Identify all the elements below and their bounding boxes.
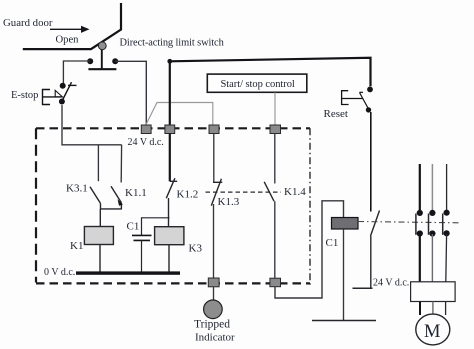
svg-text:K1.4: K1.4	[284, 186, 306, 198]
main contact 1	[416, 210, 423, 237]
junction dot	[167, 59, 172, 64]
svg-text:K1.1: K1.1	[125, 187, 147, 199]
limit switch actuator stem	[101, 50, 103, 69]
wire: PLC output 4 down	[274, 134, 276, 184]
aux contact C1	[371, 211, 380, 237]
wire: branch K3.1/K1.1 header	[97, 145, 99, 181]
wires overload to motor	[419, 302, 421, 316]
limit switch bridge bar	[88, 68, 116, 70]
limit switch roller	[98, 42, 106, 50]
PLC output terminal (lamp)	[208, 278, 219, 287]
0V dc rail	[76, 271, 180, 274]
wire K3 to 0V	[168, 245, 170, 272]
capacitor C1 link wire	[142, 218, 170, 235]
relay coil K1	[84, 227, 113, 245]
PLC input terminal 4	[270, 125, 281, 134]
wire to K1 coil	[99, 209, 101, 227]
phase line L2	[431, 164, 433, 212]
PLC input terminal 2	[165, 125, 175, 134]
E-stop moving contact	[62, 82, 77, 101]
svg-text:Reset: Reset	[324, 108, 348, 120]
overload relay box	[411, 282, 456, 302]
svg-text:Direct-acting limit switch: Direct-acting limit switch	[120, 37, 225, 48]
svg-text:24 V d.c.: 24 V d.c.	[373, 278, 409, 289]
E-stop contact dot top	[60, 83, 66, 89]
wire K1.2 to K3 coil	[168, 198, 170, 227]
wire: aux contact to 24V bar	[370, 236, 372, 288]
svg-text:K3.1: K3.1	[66, 183, 88, 195]
relay coil K3	[155, 227, 184, 245]
guard door arrow	[50, 26, 90, 33]
wire K1.1 drop	[120, 145, 122, 183]
svg-text:C1: C1	[326, 237, 339, 249]
capacitor C1	[132, 235, 152, 240]
wire to lamp	[213, 287, 215, 301]
svg-text:K1.3: K1.3	[218, 196, 240, 208]
wire K1.3 to output square	[213, 204, 215, 278]
motor M	[416, 314, 450, 345]
contact K1.3	[211, 179, 222, 206]
reset actuator bracket	[342, 91, 363, 105]
wire: limit switch right dot to PLC input 1	[115, 61, 146, 125]
capacitor to 0V wire	[141, 240, 143, 272]
phase line L1	[419, 164, 421, 212]
wire: E-stop down into relay branch	[62, 105, 122, 145]
phase wires to overload	[419, 234, 421, 282]
wire: reset to aux contact	[370, 112, 372, 212]
PLC output terminal (contactor)	[270, 278, 281, 287]
PLC input terminal 1	[141, 125, 151, 134]
24V dc terminal bar	[353, 287, 373, 289]
main contact 3	[443, 210, 450, 237]
wire: limit switch left dot to E-stop	[63, 61, 90, 83]
wire K1 to 0V	[99, 245, 101, 273]
mechanical linkage dash-dot	[358, 222, 460, 223]
contact K1.2	[166, 178, 177, 198]
reset contact dot bottom	[366, 107, 371, 112]
wire: contacts join bar	[100, 208, 122, 210]
svg-text:K1.2: K1.2	[177, 189, 199, 201]
linkage dashes K1.3 to K1.4	[206, 191, 282, 193]
svg-text:C1: C1	[127, 221, 140, 233]
wire C1 coil to return bar	[343, 229, 345, 321]
start/stop control box	[207, 74, 306, 92]
svg-text:Open: Open	[56, 35, 80, 46]
thick supply wire to reset	[170, 58, 371, 133]
limit switch contact dot left	[87, 58, 93, 64]
svg-text:M: M	[424, 322, 440, 342]
svg-text:K3: K3	[189, 243, 203, 255]
PLC dashed box top rail	[36, 127, 310, 129]
gray line: input1 to input3	[146, 103, 213, 125]
reset contact dot top	[367, 87, 373, 93]
wire K1.4 to output square	[274, 201, 276, 278]
PLC dash-dot right edge	[309, 128, 311, 286]
reset moving contact	[360, 92, 369, 109]
svg-text:24 V d.c.: 24 V d.c.	[128, 137, 164, 148]
return bar	[312, 320, 376, 322]
wire: output to C1 coil	[275, 201, 344, 298]
svg-text:Start/ stop control: Start/ stop control	[221, 79, 295, 90]
contactor coil C1	[332, 218, 359, 230]
PLC input terminal 3	[209, 125, 219, 134]
wire: PLC output 3 down	[213, 134, 215, 183]
contact K1.4	[264, 182, 274, 201]
PLC dashed box bottom rail	[36, 282, 310, 284]
svg-text:E-stop: E-stop	[11, 90, 38, 101]
phase line L3	[446, 164, 448, 212]
E-stop mushroom head bracket	[43, 90, 62, 105]
svg-text:Tripped: Tripped	[194, 319, 230, 331]
contact K3.1	[90, 187, 101, 209]
limit switch lever wire	[23, 3, 121, 49]
svg-text:0 V d.c.: 0 V d.c.	[44, 267, 75, 278]
gray line: box to input4	[274, 93, 276, 125]
svg-text:Indicator: Indicator	[195, 332, 235, 344]
wire: PLC output 2 down (thick)	[169, 134, 171, 182]
svg-text:Guard door: Guard door	[3, 17, 53, 29]
limit switch contact dot right	[112, 58, 118, 64]
contact K1.1	[111, 186, 121, 209]
svg-text:K1: K1	[70, 240, 83, 252]
PLC dashed box left edge	[35, 128, 37, 282]
E-stop contact dot bottom	[59, 99, 65, 105]
main contact 2	[429, 210, 436, 237]
tripped indicator lamp	[204, 300, 223, 319]
E-stop actuator triangle	[55, 90, 62, 97]
